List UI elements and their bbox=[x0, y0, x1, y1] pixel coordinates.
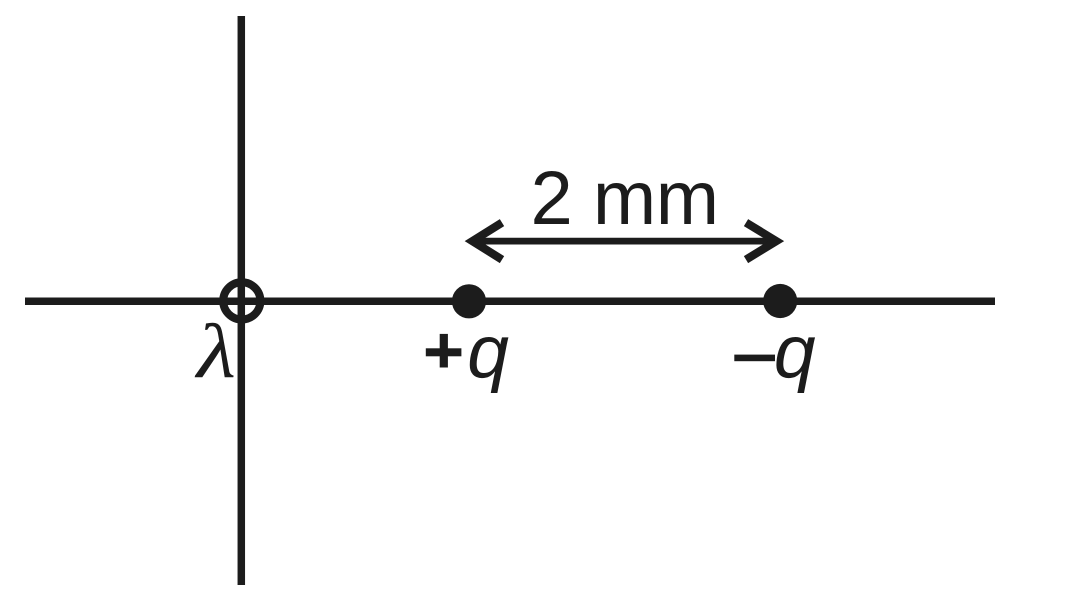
label: q of -q charge bbox=[774, 310, 816, 394]
node: +q point charge dot bbox=[452, 284, 486, 318]
label: q of +q charge bbox=[467, 310, 509, 394]
svg-text:2 mm: 2 mm bbox=[531, 156, 720, 241]
label: plus sign of +q bbox=[426, 334, 462, 368]
wire: horizontal axis line bbox=[25, 298, 995, 306]
svg-text:q: q bbox=[774, 310, 816, 394]
svg-text:λ: λ bbox=[194, 309, 236, 394]
label: 2 mm dimension text bbox=[531, 156, 720, 241]
dimension arrow: double-headed 2 mm span bbox=[472, 223, 776, 260]
label: minus sign of -q bbox=[734, 355, 775, 362]
label: lambda (linear charge density) bbox=[194, 309, 236, 394]
node: line-charge cross-section symbol (circle-plus) bbox=[223, 282, 260, 319]
wire: vertical charged line bbox=[238, 16, 246, 585]
node: -q point charge dot bbox=[763, 284, 797, 318]
svg-text:q: q bbox=[467, 310, 509, 394]
